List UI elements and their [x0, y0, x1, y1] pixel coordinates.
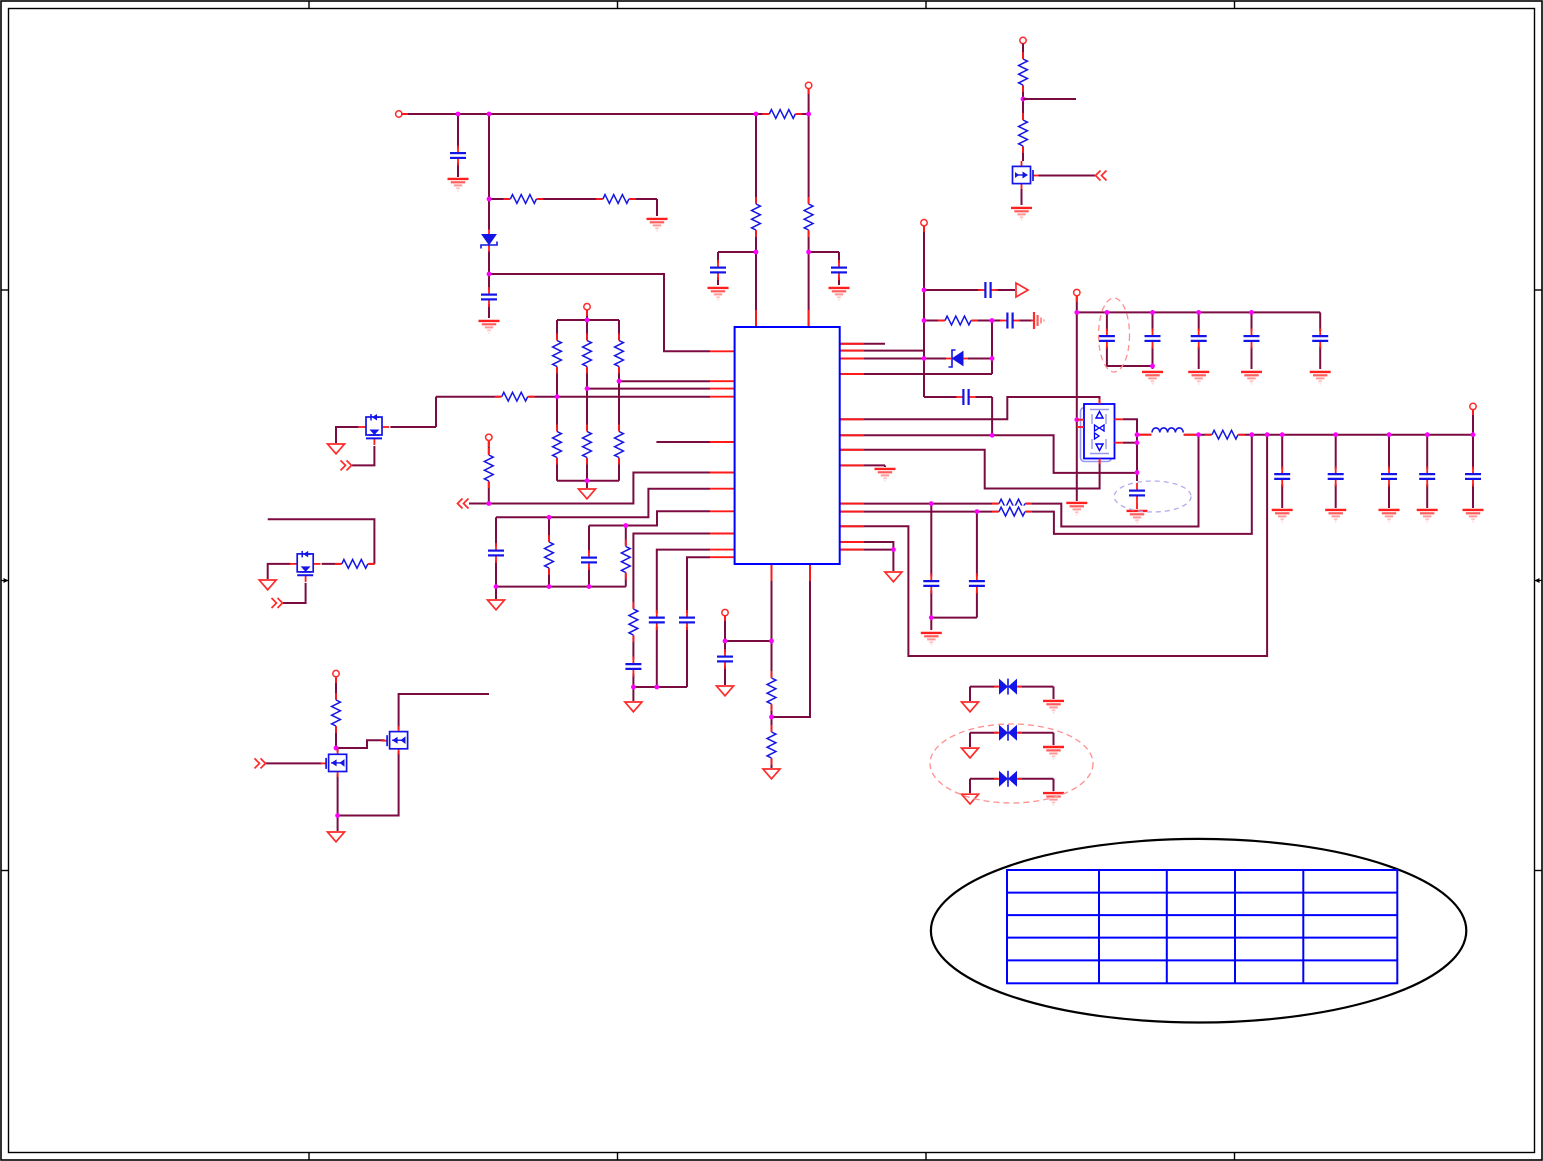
- wire output cap to ground: [1388, 484, 1390, 508]
- wire C6 to ground: [1152, 346, 1154, 369]
- capacitor C6: [1144, 329, 1162, 349]
- wire to C7: [1198, 312, 1200, 331]
- transistor Q2: [290, 550, 322, 583]
- dual MOSFET U2: [1081, 404, 1115, 462]
- ground arrow: [962, 794, 979, 804]
- wire zener to C2/ground: [488, 249, 490, 318]
- capacitor C22: [716, 649, 734, 669]
- junction: [547, 584, 552, 589]
- resistor R23: [992, 498, 1032, 510]
- junction: [547, 515, 552, 520]
- wire C8 to ground: [1251, 346, 1253, 369]
- note table: [1007, 870, 1397, 983]
- junction: [1196, 310, 1201, 315]
- wire to inductor: [1137, 434, 1151, 436]
- ground arrow: [328, 444, 345, 454]
- wire res to cap y=320: [969, 320, 1002, 322]
- wire res row y=320: [924, 320, 947, 322]
- capacitor C17: [978, 281, 998, 299]
- junction: [1150, 364, 1155, 369]
- capacitor C16: [678, 610, 696, 630]
- port P6: [1020, 37, 1026, 43]
- wire to ground: [930, 618, 932, 630]
- capacitor C13: [580, 550, 598, 570]
- wire Q3 drain to Q4 gate: [336, 740, 385, 748]
- junction: [806, 250, 811, 255]
- wire to output cap: [1281, 435, 1283, 469]
- wire cap drop x=992: [991, 397, 993, 435]
- wire C10 bottom: [930, 589, 932, 618]
- port P3: [486, 434, 492, 440]
- resistor R9: [495, 391, 535, 403]
- capacitor C4: [830, 260, 848, 280]
- wire to C6: [1152, 312, 1154, 331]
- resistor R10: [483, 448, 495, 488]
- wire IC pin y=435 to U2 net: [840, 435, 1137, 473]
- wire TVS pair 3 right: [1017, 778, 1054, 780]
- junction: [617, 379, 622, 384]
- resistor R21: [938, 315, 978, 327]
- wire to ground arrow: [969, 733, 971, 747]
- junction: [1333, 432, 1338, 437]
- wire C12 bottom: [495, 558, 497, 587]
- ground arrow: [488, 600, 505, 610]
- transistor Q3: [321, 749, 350, 777]
- wire C9 to ground: [1319, 346, 1321, 369]
- wire IC pin y=351 to node: [840, 350, 924, 352]
- wire IC pin y=465 to ground: [840, 464, 885, 466]
- ground arrow: [328, 832, 345, 842]
- IC U1 pin stubs: [710, 350, 735, 352]
- resistor R26: [766, 725, 778, 765]
- wire port node to pin net: [725, 640, 772, 642]
- wire bracket mid leg: [586, 320, 588, 488]
- junction: [1135, 470, 1140, 475]
- wire C3 to ground: [717, 252, 719, 285]
- wire to earth: [1053, 733, 1055, 745]
- wire Q2 gate to ground: [268, 564, 291, 579]
- capacitor C15: [648, 610, 666, 630]
- wire IC bottom pin 2 loop: [772, 564, 811, 717]
- junction: [1265, 432, 1270, 437]
- junction: [723, 639, 728, 644]
- wire port to IC top pin 2: [808, 89, 810, 327]
- junction: [929, 615, 934, 620]
- junction: [1021, 97, 1026, 102]
- wire port to Q5: [1022, 44, 1024, 161]
- resistor R12: [330, 693, 342, 733]
- wire RC net to IC pin y=489: [496, 489, 710, 518]
- wire rail to IC top pin 1: [755, 114, 757, 327]
- capacitor C14: [624, 657, 642, 677]
- ground: [1127, 511, 1148, 523]
- wire C16 bottom: [686, 625, 688, 687]
- resistor R24: [992, 506, 1032, 518]
- ground: [875, 469, 896, 481]
- wire branch to C4: [809, 251, 839, 253]
- wire IC pin y=450 to U2 bottom: [840, 450, 1100, 489]
- wire to output cap: [1335, 435, 1337, 469]
- capacitor C23 output: [1380, 467, 1398, 487]
- junction: [1105, 310, 1110, 315]
- transistor Q1: [359, 413, 391, 446]
- zener diode D1: [480, 230, 498, 252]
- wire port to Q3 drain: [335, 677, 337, 748]
- inductor L1: [1152, 427, 1184, 435]
- wire cap to fork: [1018, 320, 1032, 322]
- resistor R18: [762, 108, 802, 120]
- wire to arrow port: [995, 289, 1015, 291]
- port P7: [921, 220, 927, 226]
- wire Q3 drain stub: [337, 748, 339, 754]
- ground: [829, 288, 850, 300]
- capacitor C11: [968, 574, 986, 594]
- wire Q1 drain: [389, 426, 436, 428]
- wire to C10: [930, 504, 932, 578]
- wire output cap to ground: [1335, 484, 1337, 508]
- wire IC pin y=419 to U2 top: [840, 397, 1100, 419]
- port chevron in: [1096, 171, 1107, 181]
- capacitor C10: [922, 574, 940, 594]
- ground: [1325, 510, 1346, 522]
- ground arrow: [717, 686, 734, 696]
- ground: [1417, 510, 1438, 522]
- port arrow out: [1016, 283, 1028, 297]
- wire output rail y=435: [1237, 434, 1473, 436]
- wire to output cap: [1388, 435, 1390, 469]
- port P2: [584, 304, 590, 310]
- chassis ground: [1031, 312, 1044, 329]
- capacitor C22 output: [1327, 467, 1345, 487]
- ground arrow: [962, 702, 979, 712]
- wire stub down: [884, 465, 886, 467]
- wire output cap to ground: [1472, 484, 1474, 508]
- capacitor C20: [1128, 483, 1146, 503]
- capacitor C25 output: [1464, 467, 1482, 487]
- note ellipse: [931, 839, 1466, 1023]
- junction: [486, 501, 491, 506]
- junction: [891, 547, 896, 552]
- resistor R11: [335, 558, 375, 570]
- junction: [929, 501, 934, 506]
- wire chevron net to IC pin y=472: [469, 473, 710, 504]
- zener diode D2: [946, 350, 968, 368]
- wire Q3 gate from port: [265, 762, 321, 764]
- junction: [494, 584, 499, 589]
- wire Q1 drain riser: [435, 397, 437, 427]
- ground: [1310, 372, 1331, 384]
- wire cap row y=397 right: [975, 396, 992, 398]
- junction: [1074, 417, 1079, 422]
- junction: [769, 715, 774, 720]
- wire bracket left leg: [556, 320, 558, 481]
- transistor Q4: [382, 726, 411, 754]
- wire to C11: [976, 512, 978, 578]
- resistor R14: [620, 540, 632, 580]
- frame center arrows: [1, 580, 9, 582]
- resistor R5: [613, 334, 625, 374]
- resistor R20: [1017, 113, 1029, 153]
- junction: [487, 112, 492, 117]
- junction: [1471, 432, 1476, 437]
- wire bracket top rail: [557, 319, 619, 321]
- wire VIN rail y=114: [401, 113, 809, 115]
- resistor R17: [803, 197, 815, 237]
- port P9: [1470, 403, 1476, 409]
- TVS diode pair D4: [994, 724, 1022, 742]
- wire to ground: [656, 199, 658, 216]
- junction: [585, 386, 590, 391]
- wire IC pin stub y=442: [656, 441, 710, 443]
- ground arrow: [625, 702, 642, 712]
- frame tick marks top/bottom: [308, 1, 310, 9]
- port P1: [396, 111, 402, 117]
- wire decoupling rail y=312: [1077, 311, 1320, 313]
- frame tick marks left/right: [1, 289, 9, 291]
- wire rail to zener: [488, 114, 490, 232]
- ground: [479, 321, 500, 333]
- junction: [990, 433, 995, 438]
- junction: [587, 584, 592, 589]
- ground: [1272, 510, 1293, 522]
- wire long return net: [840, 435, 1267, 656]
- wire port to output rail: [1472, 410, 1474, 435]
- wire TVS pair 1 left: [970, 686, 999, 688]
- resistor R4: [581, 334, 593, 374]
- port P4: [333, 670, 339, 676]
- junction: [585, 478, 590, 483]
- capacitor C9: [1311, 329, 1329, 349]
- wire C4 to ground: [838, 252, 840, 285]
- wire IC pin y=550 left: [657, 550, 710, 615]
- junction: [631, 685, 636, 690]
- junction: [1387, 432, 1392, 437]
- wire IC pin y=374: [840, 373, 992, 375]
- port P5: [805, 82, 811, 88]
- capacitor C24 output: [1418, 467, 1436, 487]
- wire to output cap: [1426, 435, 1428, 469]
- capacitor C2: [480, 287, 498, 307]
- wire Q5 gate to port: [1039, 175, 1097, 177]
- wire zener row right: [967, 358, 992, 360]
- TVS diode pair D3: [994, 678, 1022, 696]
- wire R15 to C14: [632, 635, 634, 662]
- wire IC pin y=542: [840, 542, 894, 550]
- resistor R7: [581, 425, 593, 465]
- junction: [1280, 432, 1285, 437]
- wire TVS pair 2 left: [970, 732, 999, 734]
- ground: [1011, 208, 1032, 220]
- port chevron in: [458, 499, 469, 509]
- capacitor C18: [1000, 312, 1020, 330]
- wire IC bottom pin 1 down: [771, 564, 773, 678]
- ground: [1241, 372, 1262, 384]
- junction: [335, 813, 340, 818]
- junction: [334, 746, 339, 751]
- ground: [1188, 372, 1209, 384]
- wire inductor to resistor: [1184, 434, 1213, 436]
- resistor R19: [1017, 52, 1029, 92]
- ground: [1463, 510, 1484, 522]
- wire C15 bottom: [656, 625, 658, 687]
- junction: [1135, 432, 1140, 437]
- wire C14 to node: [632, 671, 634, 687]
- capacitor C7: [1190, 329, 1208, 349]
- junction: [754, 112, 759, 117]
- wire to C1: [457, 114, 459, 177]
- junction: [769, 639, 774, 644]
- wire Q1 drain row to IC pin y=397: [436, 396, 710, 398]
- wire to ground arrow: [969, 687, 971, 701]
- junction: [922, 318, 927, 323]
- capacitor C3: [709, 260, 727, 280]
- wire cap row y=290: [924, 289, 981, 291]
- wire output cap to ground: [1281, 484, 1283, 508]
- junction: [585, 318, 590, 323]
- wire stub y=99: [1023, 98, 1076, 100]
- wire Q1 source to port: [352, 441, 374, 465]
- resistor R3: [551, 334, 563, 374]
- wire to earth: [1053, 687, 1055, 699]
- wire to ground arrow: [771, 758, 773, 768]
- ground: [1142, 372, 1163, 384]
- wire Q2 drain row: [320, 563, 374, 565]
- IC U1: [735, 327, 840, 564]
- junction: [975, 509, 980, 514]
- resistor R25: [766, 671, 778, 711]
- wire port to bracket: [586, 310, 588, 320]
- ground: [1043, 701, 1064, 713]
- wire to C9: [1319, 312, 1321, 331]
- capacitor C5: [1098, 329, 1116, 349]
- wire output cap to ground: [1426, 484, 1428, 508]
- ground arrow: [885, 572, 902, 582]
- wire C11 bottom: [976, 589, 978, 618]
- wire divider row y=199: [489, 198, 657, 200]
- resistor R16: [750, 197, 762, 237]
- wire C7 to ground: [1198, 346, 1200, 369]
- wire rail to ground: [495, 587, 497, 599]
- junction: [754, 250, 759, 255]
- capacitor C21 output: [1273, 467, 1291, 487]
- wire RC net to IC pin y=511: [589, 511, 710, 525]
- wire to R13: [548, 517, 550, 541]
- wire bracket to IC pin y=389: [587, 388, 710, 390]
- lead: [1184, 434, 1197, 436]
- dashed highlight ellipse: [1114, 481, 1191, 512]
- ground: [1379, 510, 1400, 522]
- wire R14 bottom: [625, 573, 627, 587]
- wire vertical x=1077: [1076, 296, 1078, 501]
- transistor Q5: [1010, 161, 1039, 189]
- resistor R6: [551, 425, 563, 465]
- wire zener row left: [864, 358, 947, 360]
- wire feedback net A: [840, 435, 1199, 527]
- capacitor C12: [487, 543, 505, 563]
- junction: [1074, 310, 1079, 315]
- ground: [448, 179, 469, 191]
- ground arrow: [259, 580, 276, 590]
- junction: [990, 318, 995, 323]
- ground arrow: [579, 489, 596, 499]
- wire bracket to IC pin y=381: [619, 380, 710, 382]
- wire to R14: [625, 526, 627, 547]
- wire to C8: [1251, 312, 1253, 331]
- wire Q1 gate to ground: [336, 427, 359, 443]
- wire U2 src pin to vert x=1137: [1123, 419, 1137, 481]
- junction: [1135, 440, 1140, 445]
- wire port R to net: [488, 441, 490, 504]
- junction: [654, 685, 659, 690]
- port P8: [1074, 289, 1080, 295]
- port P10: [722, 609, 728, 615]
- wire port to cap: [724, 616, 726, 654]
- wire to ground arrow: [969, 779, 971, 793]
- wire RC common rail: [496, 586, 626, 588]
- wire to C5: [1106, 312, 1108, 331]
- junction: [487, 272, 492, 277]
- ground: [647, 219, 668, 231]
- wire cap to ground: [724, 664, 726, 685]
- resistor R15: [627, 602, 639, 642]
- capacitor C1: [449, 146, 467, 166]
- ground: [1043, 793, 1064, 805]
- ground arrow: [962, 748, 979, 758]
- wire TVS pair 1 right: [1017, 686, 1054, 688]
- junction: [1425, 432, 1430, 437]
- wire Q4 source to Q3 source: [338, 749, 399, 816]
- wire cap row y=397 left: [924, 396, 957, 398]
- dashed highlight ellipse: [930, 724, 1093, 803]
- wire C13 bottom: [588, 565, 590, 587]
- wire node FB to IC pin: [489, 274, 710, 351]
- junction: [1150, 310, 1155, 315]
- resistor R13: [543, 535, 555, 575]
- port chevron: [255, 758, 266, 768]
- junction: [806, 112, 811, 117]
- wire TVS pair 3 left: [970, 778, 999, 780]
- wire Q3 source to ground: [337, 772, 339, 831]
- resistor R1: [503, 193, 543, 205]
- wire branch to C3: [718, 251, 756, 253]
- junction: [1196, 432, 1201, 437]
- wire TVS pair 2 right: [1017, 732, 1054, 734]
- wire bracket bottom rail: [557, 480, 619, 482]
- wire to ground arrow: [632, 687, 634, 701]
- lead: [1136, 503, 1138, 509]
- wire IC pin stub y=344: [840, 343, 885, 345]
- ground arrow: [763, 769, 780, 779]
- wire bracket right leg: [618, 320, 620, 481]
- resistor R2: [596, 193, 636, 205]
- junction: [623, 523, 628, 528]
- junction: [922, 356, 927, 361]
- wire cap common: [931, 617, 977, 619]
- wire Q5 source to ground: [1021, 189, 1023, 205]
- capacitor C19: [956, 388, 976, 406]
- junction: [922, 288, 927, 293]
- junction: [1249, 310, 1254, 315]
- lead: [1139, 434, 1152, 436]
- port chevron: [341, 460, 352, 470]
- wire to C13: [588, 526, 590, 556]
- wire IC pin y=550 to ground: [840, 550, 894, 571]
- wire R13 bottom: [548, 569, 550, 587]
- wire Q4 drain stub line: [399, 694, 489, 732]
- wire Q2 source to port: [283, 578, 306, 603]
- junction: [555, 394, 560, 399]
- wire U2 drain pin: [1123, 442, 1137, 444]
